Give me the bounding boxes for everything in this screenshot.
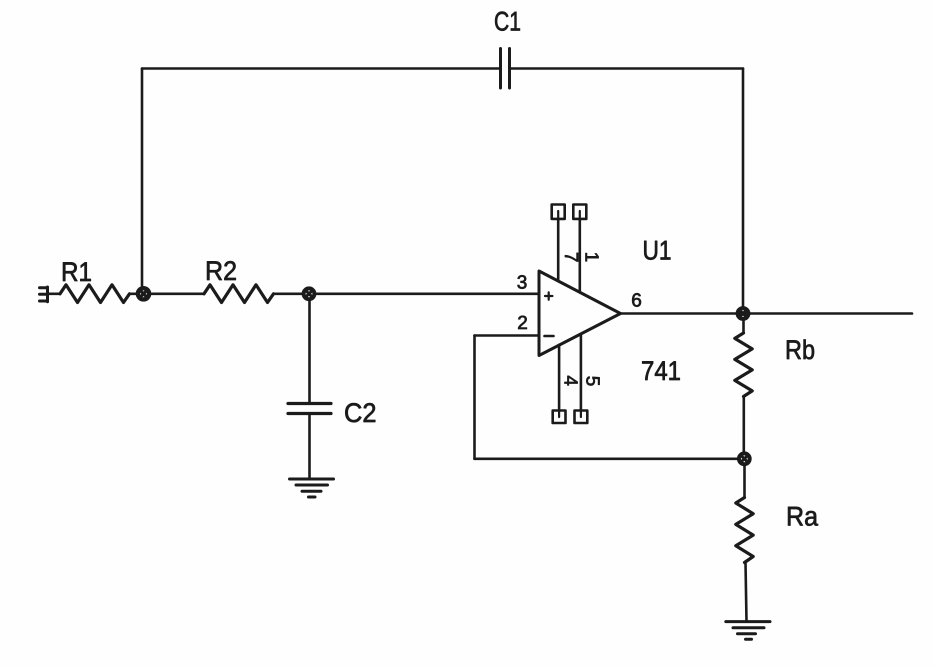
feedback wire to node D	[475, 457, 739, 460]
svg-text:2: 2	[517, 313, 528, 334]
svg-text:5: 5	[582, 376, 603, 387]
wire node A up (left leg of C1 loop)	[141, 69, 144, 288]
wire node D to Ra	[743, 465, 746, 498]
pin 1 terminal square	[573, 205, 586, 219]
wire C1 to top right corner	[511, 67, 744, 70]
svg-text:1: 1	[580, 252, 601, 263]
pin 1 wire (top)	[578, 219, 581, 292]
node D (Rb/Ra junction)	[739, 453, 750, 464]
resistor R2	[204, 256, 274, 303]
pin 7 wire (top)	[557, 219, 560, 281]
wire node B down to C2	[308, 300, 311, 402]
svg-text:C2: C2	[344, 398, 377, 428]
op-amp U1 triangle	[539, 236, 681, 387]
pin 2 wire	[475, 334, 540, 337]
svg-text:741: 741	[641, 356, 681, 386]
svg-text:3: 3	[517, 272, 528, 293]
feedback wire down	[473, 336, 476, 459]
svg-text:Rb: Rb	[785, 335, 815, 365]
wire node B to op-amp pin 3	[316, 292, 540, 295]
capacitor C1	[494, 7, 521, 89]
wire top right down to node C	[742, 69, 745, 308]
ground (below Ra)	[726, 622, 770, 640]
output wire pin 6	[621, 312, 913, 315]
pin 4 wire (bottom)	[558, 345, 561, 411]
svg-text:R1: R1	[61, 257, 92, 287]
wire input to R1	[48, 292, 61, 295]
wire Ra to ground	[746, 563, 747, 622]
resistor Ra	[736, 498, 819, 563]
node B (R2/C2/pin3 junction)	[304, 288, 315, 299]
resistor R1	[60, 257, 130, 303]
wire R2 to node B	[274, 292, 303, 295]
wire Rb to node D	[742, 397, 745, 453]
pin 7 terminal square	[552, 205, 565, 219]
svg-text:7: 7	[560, 252, 581, 263]
pin 5 wire (bottom)	[580, 334, 583, 411]
svg-text:6: 6	[631, 291, 642, 312]
wire R1 to node A	[130, 292, 138, 295]
svg-text:U1: U1	[643, 236, 672, 266]
input port	[40, 287, 48, 302]
op-amp + input mark	[545, 292, 552, 299]
op-amp - input mark	[545, 335, 554, 338]
resistor Rb	[735, 333, 815, 397]
ground (below C2)	[290, 479, 334, 497]
node C (output junction)	[738, 308, 749, 319]
wire node A to R2	[150, 292, 204, 295]
svg-text:4: 4	[560, 375, 581, 386]
pin 4 terminal square	[553, 411, 566, 424]
capacitor C2	[288, 398, 377, 428]
wire C2 to ground	[308, 415, 311, 479]
svg-text:C1: C1	[494, 7, 521, 37]
wire top left to C1	[142, 67, 500, 70]
svg-text:Ra: Ra	[786, 502, 819, 532]
wire node C to Rb	[742, 320, 745, 333]
pin 5 terminal square	[575, 411, 588, 424]
node A (R1/R2/C1 junction)	[138, 288, 149, 299]
svg-text:R2: R2	[205, 256, 237, 286]
